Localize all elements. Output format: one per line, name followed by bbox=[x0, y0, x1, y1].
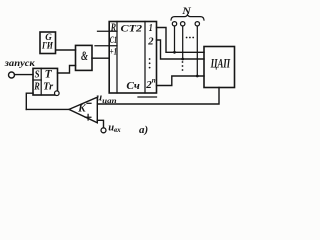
junction: terminal N / DAC input n bbox=[196, 75, 199, 78]
wire: terminal 2 drop to DAC input 2 bbox=[182, 26, 184, 59]
wire: comparator output to trigger R bbox=[26, 108, 69, 110]
wire: AND gate output to counter +1 input bbox=[92, 57, 109, 59]
svg-text:2: 2 bbox=[147, 35, 154, 47]
svg-text:Tr: Tr bbox=[43, 82, 53, 93]
counter right column divider bbox=[144, 22, 146, 94]
trigger T1 (Tr) box bbox=[33, 68, 58, 95]
svg-text:R: R bbox=[110, 22, 116, 33]
junction: terminal 1 / DAC input 1 bbox=[173, 51, 176, 54]
DAC U2 (ЦАП) box bbox=[204, 47, 235, 88]
comparator plus sign bbox=[85, 114, 91, 120]
svg-text:а): а) bbox=[139, 124, 148, 136]
trigger inverted output circle bbox=[55, 91, 60, 96]
svg-text:N: N bbox=[181, 7, 192, 17]
wire: terminal N drop to DAC input n bbox=[196, 26, 198, 76]
ellipsis between terminal drops bbox=[186, 37, 188, 39]
svg-text:Сч: Сч bbox=[126, 80, 140, 92]
node: U_вх input terminal bbox=[101, 128, 106, 133]
ellipsis between DAC inputs bbox=[182, 61, 184, 63]
svg-text:ЦАП: ЦАП bbox=[210, 56, 231, 71]
AND gate DD1 (&) box bbox=[76, 45, 93, 70]
svg-text:S: S bbox=[35, 70, 40, 81]
wire: trigger R input from comparator output bbox=[26, 93, 33, 109]
wire: terminal 1 drop to DAC input 1 bbox=[174, 26, 176, 52]
stray scan segment under counter bbox=[138, 96, 157, 98]
svg-text:+1: +1 bbox=[110, 47, 117, 57]
node: digital output terminal 2 bbox=[181, 22, 185, 26]
wire: DAC output to comparator minus input bbox=[98, 88, 220, 105]
generator G1 (ГИ) box bbox=[40, 32, 56, 54]
svg-text:R: R bbox=[33, 82, 39, 93]
wire: counter C1 input stub bbox=[95, 45, 117, 47]
svg-text:T: T bbox=[45, 69, 53, 81]
counter DD2 (CT2 / Сч) box bbox=[109, 22, 156, 94]
svg-text:запуск: запуск bbox=[4, 58, 36, 68]
svg-text:ГИ: ГИ bbox=[41, 41, 54, 51]
svg-text:&: & bbox=[81, 49, 88, 63]
junction: terminal 2 / DAC input 2 bbox=[181, 58, 184, 61]
wire: ГИ output to AND gate input 1 bbox=[56, 49, 76, 51]
svg-text:CT2: CT2 bbox=[121, 23, 143, 34]
overbrace for N outputs bbox=[171, 15, 204, 20]
wire: counter R input stub bbox=[98, 30, 118, 32]
wire: trigger T output to AND gate input 2 bbox=[58, 66, 76, 74]
node: digital output terminal 1 bbox=[172, 22, 176, 26]
svg-text:1: 1 bbox=[149, 23, 153, 34]
wire: comparator plus input to U_вх terminal bbox=[97, 120, 103, 127]
wire: запуск terminal to trigger S input bbox=[15, 74, 34, 76]
counter output ellipsis dots bbox=[149, 58, 151, 60]
wire: counter output 2 to DAC input 2 bbox=[157, 40, 205, 59]
counter left column divider bbox=[116, 22, 118, 94]
node: digital output terminal N bbox=[195, 22, 199, 26]
comparator A1 (K) triangle bbox=[69, 97, 97, 123]
trigger S/R cell divider bbox=[33, 79, 41, 81]
svg-text:C1: C1 bbox=[110, 36, 117, 46]
node: запуск input terminal bbox=[9, 72, 15, 78]
trigger inner divider bbox=[40, 68, 42, 95]
wire: counter output 2^n to DAC input n bbox=[157, 76, 205, 86]
comparator minus sign bbox=[87, 102, 91, 104]
wire: counter output 1 to DAC input 1 bbox=[157, 28, 205, 53]
svg-text:K: K bbox=[77, 104, 87, 115]
